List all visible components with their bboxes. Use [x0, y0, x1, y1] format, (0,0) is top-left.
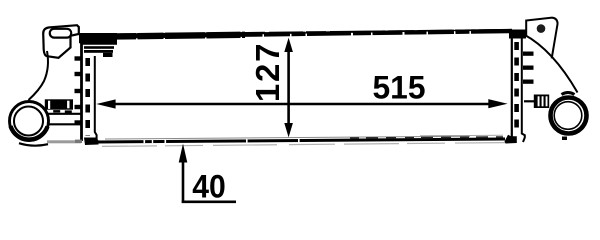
dimension 127 bottom arrowhead [284, 123, 293, 137]
bracket slot [50, 29, 71, 38]
right clamp block [534, 95, 549, 109]
core top band left thick wedge [102, 35, 245, 37]
left port inner circle [14, 107, 43, 136]
right bracket plate outline [526, 18, 557, 36]
right bracket tab right edge [552, 24, 558, 59]
core top header band (dashed thick) [100, 31, 512, 37]
left port outer circle [10, 102, 49, 141]
right tank foot [505, 135, 517, 144]
core bottom edge band [97, 139, 505, 142]
left pipe top line [48, 113, 82, 115]
svg-text:515: 515 [373, 70, 426, 106]
left tank right line [95, 56, 97, 140]
right tank right line [522, 38, 525, 142]
hose wire curve [29, 51, 49, 100]
dimension 515 line [112, 103, 492, 106]
top-left bracket [43, 25, 79, 58]
left tank tick 2 [75, 72, 82, 76]
right tank cap [509, 30, 526, 39]
left port bottom lip [19, 143, 48, 145]
dimension 515 right arrowhead [488, 99, 507, 108]
left port bottom thick arc [11, 126, 48, 140]
core bottom edge dark speckles [350, 137, 503, 138]
left clamp block [45, 99, 73, 109]
svg-text:40: 40 [192, 169, 226, 205]
right bracket main diagonal [524, 35, 578, 93]
left tank left line [80, 42, 83, 141]
left tank tick 1 [75, 56, 82, 60]
dimension 127 line [287, 48, 290, 127]
right tank left line [511, 32, 513, 140]
right port inner circle [554, 102, 582, 130]
dimension 127 top arrowhead [284, 38, 293, 52]
right tank tick 1 [523, 52, 534, 56]
dimension 40 arrowhead [179, 144, 188, 163]
right port outer ring [551, 98, 587, 134]
right bracket hole [537, 24, 546, 33]
dimension 515 left arrowhead [96, 99, 115, 108]
left tank foot [84, 138, 99, 146]
core bottom faint inner line [105, 136, 470, 139]
right port bottom dash [562, 137, 567, 141]
core bottom shadow line [102, 143, 505, 147]
left tank tick 5 [75, 120, 82, 124]
left tank tick 3 [75, 89, 82, 93]
dimension 40 vertical line [182, 158, 185, 203]
left tank tick 4 [75, 105, 82, 109]
gray sill under pipe [47, 140, 81, 143]
right tank tick 2 [523, 66, 534, 70]
dimension 40 horizontal line [182, 201, 236, 204]
right tank tick 3 [523, 80, 534, 84]
left pipe bottom line [48, 123, 82, 125]
right tank dashed centerline [514, 42, 519, 131]
core top band speckle line [120, 30, 512, 34]
svg-text:127: 127 [249, 42, 286, 102]
left tank dashed centerline [85, 58, 90, 136]
core top edge thin line [97, 30, 512, 37]
left header block [79, 33, 117, 45]
right pipe line [524, 100, 534, 102]
right port top nub [562, 93, 575, 95]
